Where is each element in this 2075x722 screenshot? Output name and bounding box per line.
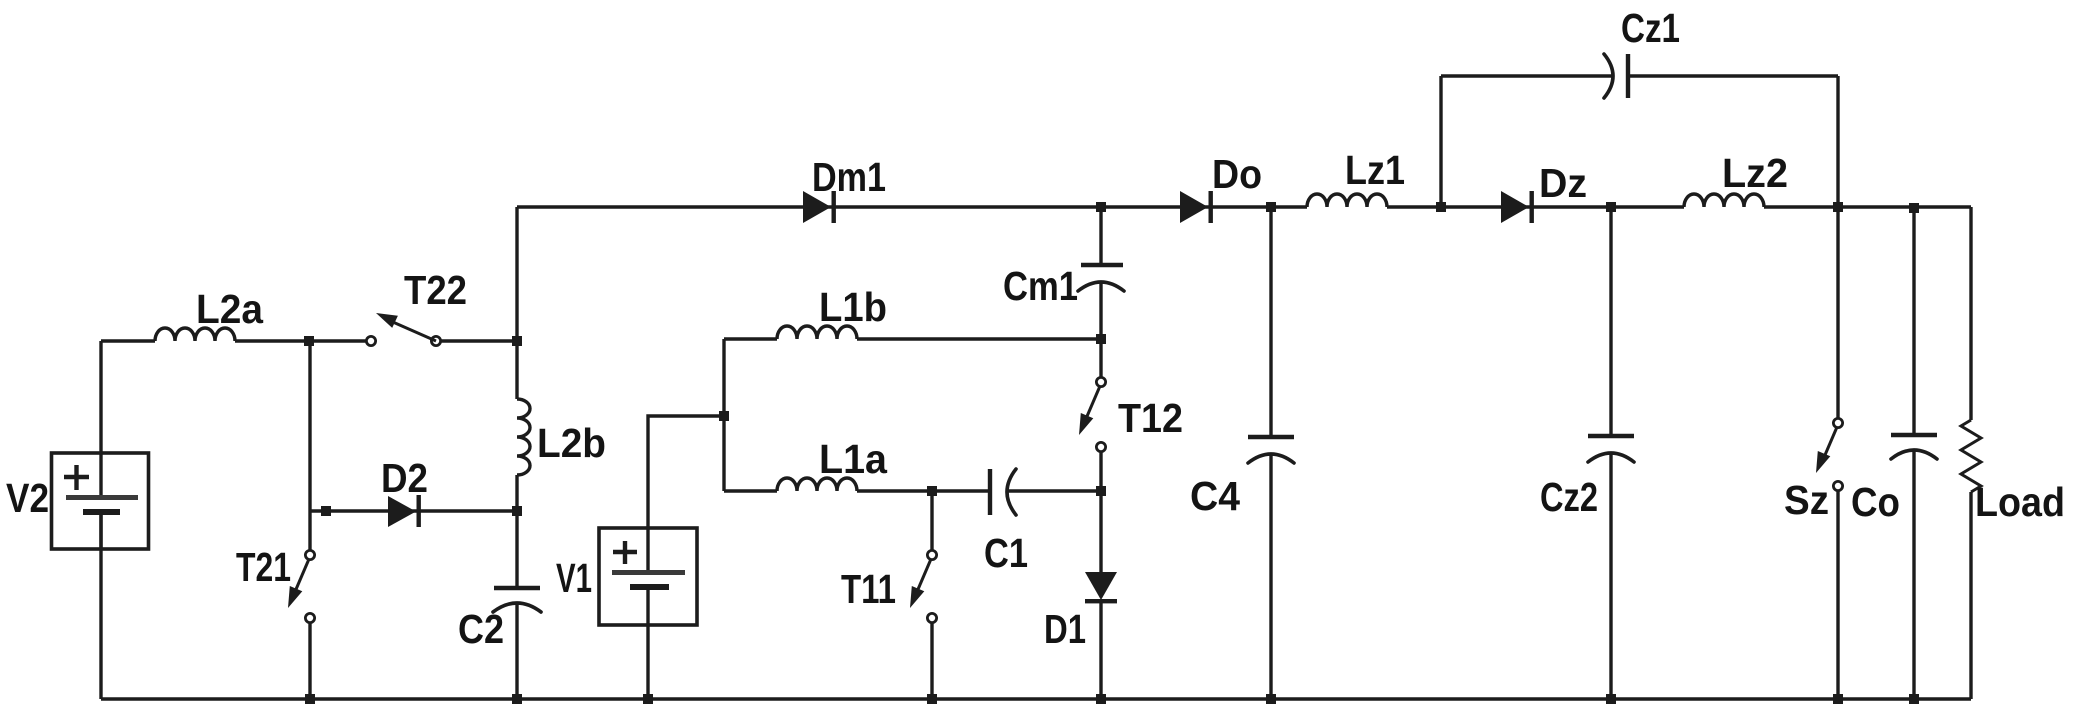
node: top rail / Cz1 left branch junction [1436,202,1446,212]
node: L2b column bottom rail junction [512,694,522,704]
battery V2 long plate [66,495,138,500]
wire: V2 left column top (source to L2a wire) [99,341,102,453]
svg-text:Co: Co [1851,479,1900,525]
node: L1b / main middle column junction [1096,334,1106,344]
svg-text:L2b: L2b [537,420,606,466]
node: Co bottom rail junction [1909,694,1919,704]
capacitor Cm1 top plate [1081,263,1123,267]
svg-text:T11: T11 [841,566,896,612]
battery V1 box [599,528,697,625]
node: T11 tap on L1a row [927,486,937,496]
svg-text:L1b: L1b [819,284,887,330]
wire: Co column top [1912,208,1915,433]
svg-text:C1: C1 [984,530,1028,576]
node: T11 bottom rail junction [927,694,937,704]
battery V1 plus sign [613,541,637,564]
node: C4 bottom rail junction [1266,694,1276,704]
capacitor Cz1 straight plate [1626,54,1630,98]
svg-text:T22: T22 [404,267,467,313]
wire: top main rail from Lz2 to right edge [1764,205,1971,208]
resistor Load (zigzag) [1961,420,1981,492]
capacitor C1 curved plate [1007,469,1016,515]
wire: D1 to bottom rail [1099,600,1102,699]
wire: Co column bottom [1912,450,1915,699]
wire: Load column bottom [1969,492,1972,699]
svg-text:Cz1: Cz1 [1621,5,1680,51]
svg-text:Lz2: Lz2 [1722,150,1788,196]
battery V2 box [52,453,149,549]
wire: Cz1 row right [1630,74,1838,77]
svg-text:Load: Load [1975,479,2065,525]
capacitor C2 curved plate [493,603,541,612]
node: D2 row right junction on L2b column [512,506,522,516]
svg-text:V2: V2 [6,475,49,521]
svg-text:Cz2: Cz2 [1540,474,1598,520]
node: top rail / middle column junction [1096,202,1106,212]
wire: bottom main rail y=699 [101,697,1971,700]
svg-text:L2a: L2a [196,286,264,332]
wire: L2b column middle [515,475,518,586]
diode Dz on top rail [1501,191,1529,223]
wire: C4 column top [1269,207,1272,435]
battery V1 long plate [612,570,685,575]
svg-text:D2: D2 [381,455,428,501]
capacitor Cz2 top plate [1588,434,1634,438]
node: middle column bottom rail junction [1096,694,1106,704]
switch T12 (open, vertical) [1096,377,1105,386]
svg-text:Lz1: Lz1 [1345,147,1405,193]
svg-text:Cm1: Cm1 [1003,263,1078,309]
wire: V1 bottom lead [646,625,649,699]
node: Cz2 bottom rail junction [1606,694,1616,704]
inductor L2a [155,328,235,341]
svg-text:D1: D1 [1044,606,1086,652]
capacitor Co curved plate [1891,450,1937,459]
wire: Cz1 left branch vertical [1439,76,1442,207]
node: Sz bottom rail junction [1833,694,1843,704]
inductor L1b [777,326,857,339]
wire: Cz1 right branch vertical [1836,76,1839,207]
wire: L1a row to C1 [857,489,988,492]
wire: top main rail between Lz1 and Lz2 [1387,205,1684,208]
switch T22 (open, horizontal) [366,336,375,345]
capacitor Co top plate [1891,433,1937,437]
capacitor C2 top plate [494,586,540,590]
wire: Load column top [1969,207,1972,420]
diode Do on top rail [1180,191,1208,223]
node: top rail / C4 column junction [1266,202,1276,212]
wire: L2a row left segment [101,339,155,342]
inductor L2b (vertical) [517,399,530,475]
wire: L2b column top (top rail to inductor) [515,207,518,399]
wire: C1 to main middle column [1008,489,1101,492]
wire: top main rail y=207 from L2b column to Lz1 [517,205,1307,208]
wire: T22 to L2b column [441,339,517,342]
svg-text:C4: C4 [1190,473,1240,519]
capacitor C4 curved plate [1248,454,1294,463]
node: top rail / Co column junction [1909,203,1919,213]
wire: Cz1 row left [1441,74,1612,77]
svg-text:Dz: Dz [1539,160,1587,206]
capacitor Cz1 curved plate [1604,54,1613,98]
inductor Lz1 [1307,194,1387,207]
wire: V2 internal stubs [99,453,102,549]
switch Sz (open, vertical) [1833,418,1842,427]
inductor Lz2 [1684,194,1764,207]
diode D1 (pointing down) [1085,572,1117,600]
wire: L2a to T22 switch [235,339,366,342]
node: V1 bottom rail junction [643,694,653,704]
wire: D2 row from T21 column to L2b column [310,509,517,512]
wire: C2 to bottom rail [515,603,518,699]
wire: T11 branch vertical [930,491,933,550]
node: C1 row / middle column junction [1096,486,1106,496]
wire: T21 branch vertical from L2a wire [308,341,311,550]
switch T11 (open, vertical) [927,550,936,559]
inductor L1a [777,478,857,491]
wire: Cz2 column top [1609,207,1612,434]
svg-text:T21: T21 [236,544,291,590]
wire: V1 top lead to L1 center bar [648,416,724,528]
node: T21 bottom rail junction [305,694,315,704]
wire: L1a row left [724,489,777,492]
node: junction T22 wire / L2b column [512,336,522,346]
diode D2 [388,496,416,527]
node: D2 row left junction [321,506,331,516]
capacitor Cz2 curved plate [1588,453,1634,462]
node: top rail / Cz2 column junction [1606,202,1616,212]
wire: V2 left column bottom (source to bottom rail) [99,515,102,699]
capacitor C4 top plate [1248,435,1294,439]
wire: middle column top rail to Cm1 [1099,207,1102,263]
svg-text:L1a: L1a [819,436,888,482]
capacitor C1 straight plate [988,469,992,515]
battery V2 plus sign [64,465,89,490]
svg-text:C2: C2 [458,606,504,652]
wire: C4 column bottom [1269,454,1272,699]
svg-text:Sz: Sz [1784,477,1829,523]
wire: T12 to D1 [1099,452,1102,572]
wire: L1b row left [724,337,777,340]
wire: L1 center bar vertical [722,339,725,491]
node: junction L2a/T21 branch [304,336,314,346]
wire: L1b row right [857,337,1101,340]
node: V1 tap on center bar [719,411,729,421]
node: top rail / Sz branch junction [1833,202,1843,212]
switch T21 (open, vertical) [305,550,314,559]
svg-text:Do: Do [1212,151,1262,197]
wire: Cz2 column bottom [1609,453,1612,699]
battery V2 short plate [83,509,120,515]
wire: V1 internal stubs [646,528,649,625]
capacitor Cm1 curved plate [1078,282,1124,291]
diode Dm1 on top rail [803,191,831,223]
battery V1 short plate [630,584,669,590]
svg-text:Dm1: Dm1 [812,154,886,200]
svg-text:T12: T12 [1118,395,1183,441]
wire: Cm1 to T12 [1099,282,1102,377]
wire: Sz branch vertical top [1836,207,1839,418]
svg-text:V1: V1 [556,555,592,601]
